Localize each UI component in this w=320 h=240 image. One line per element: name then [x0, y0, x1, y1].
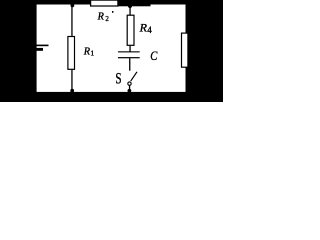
node B (junction dot, top of R4/C/S branch)	[128, 4, 132, 8]
svg-text:R: R	[97, 12, 105, 23]
svg-text:2: 2	[105, 15, 109, 23]
switch S pivot circle	[128, 82, 131, 85]
resistor R1 (box)	[68, 37, 75, 70]
svg-text:R: R	[139, 20, 148, 34]
svg-text:S: S	[115, 70, 121, 87]
wire from R1 down to bottom wire	[71, 70, 72, 92]
resistor R2 (box on top wire)	[91, 0, 118, 6]
node A (junction dot, top of R1 branch)	[71, 4, 75, 8]
switch S lever (open blade)	[131, 72, 137, 81]
resistor (right, unlabeled box on right wire)	[182, 33, 188, 67]
svg-text:R: R	[83, 46, 91, 57]
wire from R4 down to capacitor	[129, 46, 130, 52]
wire from node A down to R1	[71, 4, 72, 36]
white background	[0, 0, 223, 102]
bottom wire (merged with bottom black scan border)	[0, 92, 223, 102]
capacitor C bottom plate	[118, 57, 140, 58]
wire from capacitor down to switch	[129, 58, 130, 70]
battery long plate (positive)	[30, 45, 49, 47]
right wire (merged with right black scan border)	[186, 0, 224, 102]
left black scan border (hides battery wire)	[0, 0, 37, 102]
resistor R4 (box)	[127, 15, 134, 45]
wire from node B down to R4	[129, 5, 130, 15]
wire from switch down to bottom wire	[129, 86, 130, 92]
top wire (merged with top black scan border)	[0, 0, 223, 5]
node (junction dot, bottom of switch branch)	[127, 89, 131, 93]
battery short plate (negative)	[30, 48, 43, 51]
svg-text:4: 4	[147, 25, 152, 35]
capacitor C top plate	[118, 51, 140, 52]
svg-text:C: C	[150, 51, 157, 64]
svg-text:1: 1	[90, 49, 94, 58]
wire segment from R2 right terminal to R4 node (thicker)	[118, 0, 151, 6]
node (junction dot, bottom of R1 branch)	[70, 89, 74, 93]
ink speck	[112, 11, 113, 13]
